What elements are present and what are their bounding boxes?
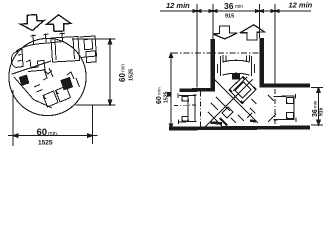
- dash-dot centerlines: [172, 52, 259, 54]
- svg-text:60: 60: [156, 96, 163, 104]
- down arrow (right figure): [213, 26, 238, 39]
- right arm wheelchair: [268, 94, 296, 122]
- center tilted wheelchair: [205, 77, 259, 128]
- vertical dimension line (left figure): [72, 39, 116, 105]
- svg-text:min: min: [313, 100, 318, 108]
- bottom dimension line (left figure): [13, 90, 93, 146]
- svg-text:min: min: [235, 4, 243, 10]
- svg-text:1525: 1525: [129, 69, 135, 81]
- right 36 dimension (right figure): [311, 88, 323, 126]
- thick walls: [211, 39, 215, 89]
- right figure left side rotated 60 min / 1525: [156, 87, 170, 104]
- wheelchair B (bottom, tilted plan view): [12, 61, 80, 108]
- svg-text:12 min: 12 min: [166, 1, 190, 10]
- wheelchair A (top, plan view): [11, 33, 96, 75]
- left figure side: 60 min / 1525 (rotated): [118, 64, 135, 82]
- svg-text:12 min: 12 min: [289, 1, 313, 10]
- svg-text:36: 36: [224, 1, 234, 11]
- svg-text:915: 915: [225, 14, 234, 20]
- top dimension line: [160, 10, 311, 12]
- right figure right side rotated 36 / 915: [312, 100, 325, 117]
- svg-text:min.: min.: [48, 131, 59, 137]
- svg-text:915: 915: [319, 107, 325, 116]
- left dimension (right figure): [170, 53, 172, 129]
- svg-text:60: 60: [37, 127, 48, 138]
- svg-text:1525: 1525: [38, 140, 53, 147]
- down arrow (left figure): [21, 15, 45, 31]
- stem wheelchair (front view): [218, 55, 255, 79]
- up arrow (left figure): [47, 15, 72, 32]
- up arrow (right figure): [240, 25, 265, 40]
- svg-text:60: 60: [118, 73, 127, 82]
- svg-text:1525: 1525: [164, 91, 170, 103]
- svg-text:min: min: [121, 64, 127, 72]
- svg-text:min: min: [157, 87, 163, 95]
- left arm wheelchair: [168, 92, 197, 124]
- turning circle: [9, 38, 86, 115]
